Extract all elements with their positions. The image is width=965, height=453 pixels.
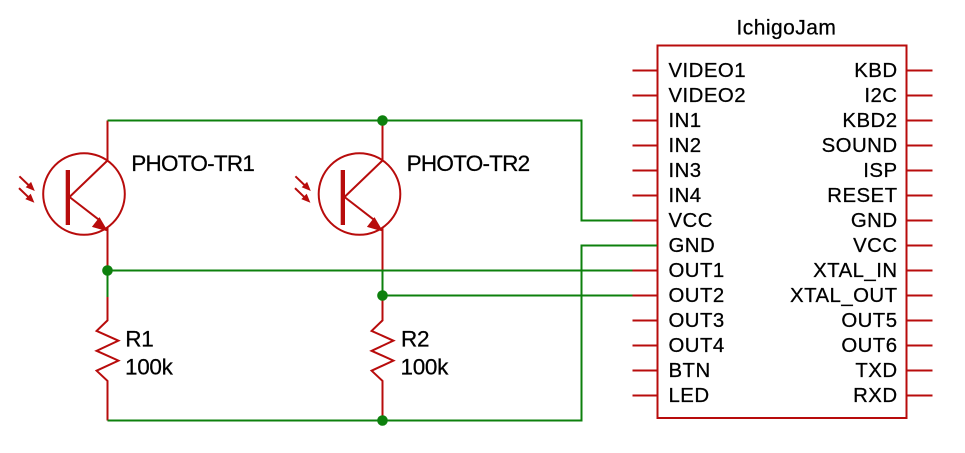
svg-text:IN1: IN1 (669, 110, 702, 132)
svg-text:VIDEO2: VIDEO2 (669, 85, 747, 107)
svg-text:SOUND: SOUND (822, 135, 898, 157)
svg-text:I2C: I2C (864, 85, 897, 107)
svg-text:VCC: VCC (853, 235, 897, 257)
svg-text:IN2: IN2 (669, 135, 702, 157)
svg-text:100k: 100k (401, 355, 450, 380)
svg-text:R1: R1 (125, 327, 153, 352)
svg-text:OUT5: OUT5 (841, 310, 897, 332)
svg-text:OUT4: OUT4 (669, 335, 725, 357)
svg-text:IN4: IN4 (669, 185, 702, 207)
svg-text:BTN: BTN (669, 360, 711, 382)
svg-text:OUT1: OUT1 (669, 260, 725, 282)
svg-text:XTAL_IN: XTAL_IN (813, 260, 897, 282)
svg-text:KBD2: KBD2 (842, 110, 897, 132)
svg-text:VIDEO1: VIDEO1 (669, 60, 747, 82)
svg-text:VCC: VCC (669, 210, 713, 232)
svg-text:OUT6: OUT6 (841, 335, 897, 357)
svg-text:RXD: RXD (853, 385, 897, 407)
svg-text:IchigoJam: IchigoJam (737, 17, 837, 40)
svg-text:KBD: KBD (854, 60, 897, 82)
svg-text:PHOTO-TR1: PHOTO-TR1 (131, 151, 254, 176)
svg-text:IN3: IN3 (669, 160, 702, 182)
svg-text:RESET: RESET (827, 185, 897, 207)
svg-text:ISP: ISP (863, 160, 897, 182)
svg-text:LED: LED (669, 385, 710, 407)
svg-text:TXD: TXD (855, 360, 897, 382)
svg-text:PHOTO-TR2: PHOTO-TR2 (407, 151, 530, 176)
svg-text:OUT3: OUT3 (669, 310, 725, 332)
svg-text:OUT2: OUT2 (669, 285, 725, 307)
svg-text:100k: 100k (125, 355, 174, 380)
svg-text:GND: GND (669, 235, 716, 257)
svg-text:R2: R2 (401, 327, 429, 352)
svg-text:GND: GND (851, 210, 898, 232)
svg-text:XTAL_OUT: XTAL_OUT (790, 285, 897, 307)
